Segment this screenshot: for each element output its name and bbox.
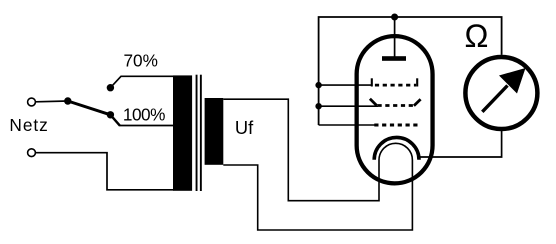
svg-text:Ω: Ω [465, 18, 489, 54]
svg-text:100%: 100% [123, 104, 165, 124]
svg-text:Uf: Uf [235, 117, 254, 138]
svg-text:Netz: Netz [9, 115, 48, 135]
svg-text:70%: 70% [124, 51, 158, 71]
